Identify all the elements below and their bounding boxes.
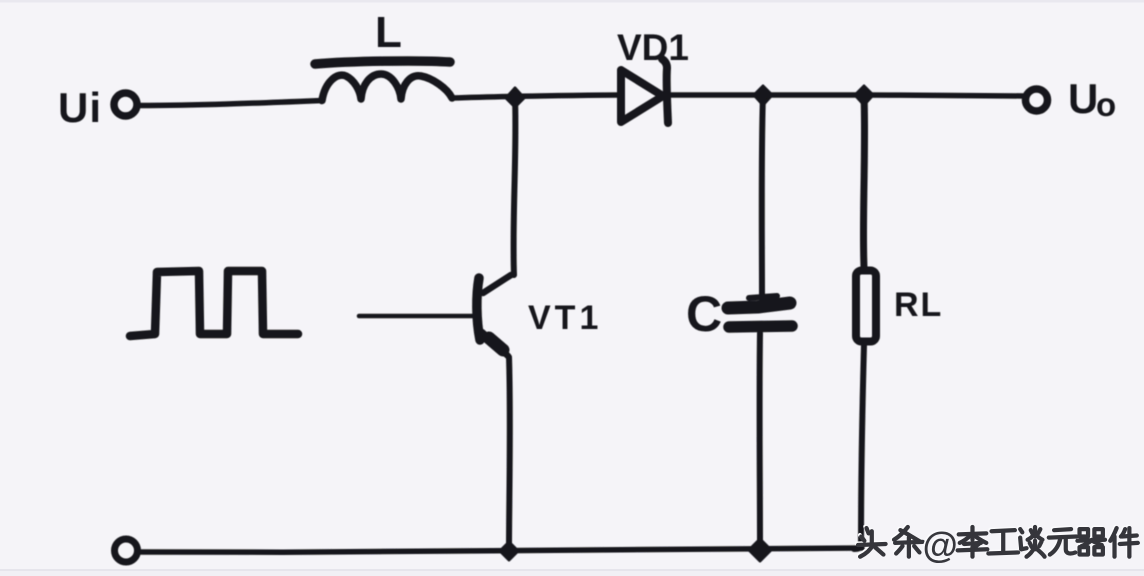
wire node C to Uo terminal [864,95,1025,96]
capacitor C top plate flare [749,296,777,298]
wire bottom rail [140,548,862,552]
wire node B to node C [763,92,861,98]
inductor core bar [315,61,450,64]
svg-text:L: L [375,8,402,57]
node D junction (emitter to rail) [500,542,518,560]
node C junction (RL top) [855,86,873,105]
svg-text:C: C [686,286,722,342]
wire RL bottom lead [854,345,864,549]
svg-text:@: @ [923,525,958,566]
node B junction (capacitor top) [754,86,772,105]
wire collector vertical [514,98,516,275]
resistor RL body [856,271,876,342]
wire transistor base [359,314,473,319]
wire emitter vertical [506,357,513,550]
wire inductor to diode [452,95,620,98]
watermark 头条 @李工谈元器件 [857,523,1138,566]
svg-text:o: o [1096,86,1116,123]
terminal bottom left [115,539,138,562]
pulse waveform [130,271,298,336]
node E junction (capacitor to rail) [749,539,771,561]
terminal Ui [114,93,137,116]
node A junction (collector) [506,88,524,107]
svg-text:VT1: VT1 [528,299,602,337]
capacitor C top plate [728,303,790,308]
diode VD1 [621,70,663,122]
capacitor C bottom plate [729,326,792,327]
transistor VT1 base bar [477,278,480,340]
svg-text:VD1: VD1 [617,27,689,68]
wire capacitor top lead [762,95,763,300]
transistor VT1 collector stroke [483,275,511,293]
diode VD1 cathode bar [662,59,668,123]
wire diode to node B [670,92,760,98]
wire RL top lead [863,95,864,267]
wire Ui to inductor [139,101,322,106]
svg-text:RL: RL [894,286,943,324]
svg-text:U: U [1068,75,1098,122]
wire capacitor bottom lead [757,333,763,549]
inductor L [322,74,452,101]
transistor VT1 emitter arrow blob [489,338,503,350]
terminal Uo [1026,89,1048,111]
svg-text:Ui: Ui [58,84,102,131]
edge vignette [0,0,1144,3]
transistor VT1 emitter stroke [482,332,508,356]
